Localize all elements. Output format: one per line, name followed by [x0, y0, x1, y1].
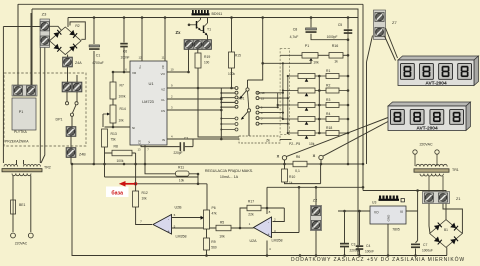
wire raw supply bus: [267, 4, 446, 219]
wire C3 stem: [344, 211, 346, 256]
svg-text:X: X: [313, 153, 316, 158]
wire SW1 rotor2 to Zk: [248, 112, 250, 136]
svg-text:4700uF: 4700uF: [92, 61, 104, 65]
transistor T1 darlington: [189, 20, 211, 36]
relay P1: [12, 98, 36, 130]
resistor R6 0,1: [293, 155, 307, 173]
svg-text:LM723: LM723: [142, 100, 154, 104]
resistor R15 100k: [228, 52, 241, 76]
svg-text:P1: P1: [305, 44, 309, 48]
switch DP1: [56, 102, 79, 122]
capacitor C8 4,7uF: [290, 28, 317, 40]
connector Zx: [176, 30, 212, 50]
wire C2 loop: [141, 139, 193, 164]
svg-text:U3: U3: [372, 201, 376, 205]
wire X stems: [285, 160, 322, 164]
wire P1 to R16: [318, 54, 329, 56]
wire R16 right: [343, 54, 348, 56]
svg-text:VO: VO: [161, 72, 166, 76]
svg-text:LM358: LM358: [176, 235, 187, 239]
svg-text:V-: V-: [147, 141, 151, 144]
display module AVT-2004 #1: [398, 56, 479, 86]
svg-text:22k: 22k: [248, 213, 254, 217]
test point X2: [313, 153, 324, 160]
svg-text:C4: C4: [366, 244, 370, 248]
svg-text:1000pF: 1000pF: [327, 35, 338, 39]
wire U2A pin8: [266, 187, 268, 214]
svg-text:R18: R18: [326, 126, 332, 130]
svg-text:C3: C3: [351, 243, 355, 247]
svg-text:Z2: Z2: [313, 199, 317, 203]
svg-text:10: 10: [171, 68, 175, 72]
wire C6 leads: [123, 18, 125, 73]
svg-text:100: 100: [204, 61, 210, 65]
wire R9 down: [206, 250, 208, 256]
wire switch feed from bus: [248, 18, 263, 88]
connector Z4A: [63, 57, 83, 67]
svg-text:Z3: Z3: [42, 12, 47, 17]
wire Z2 bottom: [315, 231, 317, 256]
connector Z7: [374, 10, 398, 40]
transformer TR2: [2, 165, 51, 176]
svg-text:R19: R19: [204, 55, 210, 59]
svg-text:1000uF: 1000uF: [422, 249, 433, 253]
wire Z3 screw1 to bridge: [50, 26, 62, 30]
svg-text:R17: R17: [248, 200, 254, 204]
capacitor C2 220pF: [173, 137, 188, 156]
resistor R9 560: [204, 238, 217, 250]
svg-text:X: X: [277, 154, 280, 159]
junction dots U1 right: [187, 71, 222, 141]
svg-text:база: база: [111, 189, 123, 196]
potentiometer row R2: [283, 83, 349, 96]
connector Z1: [423, 192, 461, 204]
svg-text:B1: B1: [444, 228, 448, 232]
svg-text:4,7uF: 4,7uF: [290, 35, 299, 39]
svg-text:12: 12: [138, 56, 142, 60]
potentiometer P6 47k: [204, 206, 218, 229]
svg-text:Zk: Zk: [266, 139, 270, 143]
junction dot R15: [112, 16, 233, 128]
resistor R2 label: [75, 24, 79, 28]
wire fuse to terminal: [12, 214, 14, 232]
potentiometer R14 10k: [103, 105, 126, 123]
wire Zx screw2 to R19: [197, 50, 199, 54]
connector Z4B bottom screw: [66, 148, 86, 158]
svg-text:10k: 10k: [309, 142, 315, 146]
wire C1 leads: [93, 18, 95, 165]
svg-text:100k: 100k: [119, 95, 126, 99]
wire base line: [120, 184, 208, 210]
svg-text:560: 560: [211, 246, 217, 250]
wire C8 bottom: [311, 34, 348, 40]
wire U2B pin5: [172, 227, 217, 229]
svg-text:R3: R3: [326, 98, 330, 102]
svg-text:10k: 10k: [219, 235, 225, 239]
svg-text:PRZEKAŹNIKA: PRZEKAŹNIKA: [5, 139, 29, 144]
wire U1 supply pins: [142, 18, 165, 62]
wire U1 VO to Zx: [167, 50, 189, 73]
wire bank interconnect: [318, 76, 320, 133]
resistor R19 100: [195, 53, 210, 68]
op-amp regulator U1 LM723: [125, 56, 174, 152]
svg-text:P6: P6: [212, 206, 216, 210]
wire feedback: [240, 208, 284, 228]
wire C5 top: [347, 18, 349, 29]
capacitor C4 100nF: [356, 244, 374, 254]
relay terminal block: [12, 85, 37, 96]
wire X1 to module2: [286, 118, 388, 157]
svg-text:T1: T1: [207, 28, 211, 32]
wire DP1 stubs: [67, 67, 77, 102]
svg-text:AVT-2004: AVT-2004: [416, 125, 438, 131]
wire main mid bus: [72, 163, 363, 165]
wire feeds to module2: [367, 36, 373, 165]
svg-text:PLYTKA: PLYTKA: [14, 130, 27, 134]
svg-text:10k: 10k: [142, 197, 148, 201]
junction dots switch comb: [220, 92, 222, 131]
potentiometer row R1: [288, 69, 350, 82]
svg-text:100nF: 100nF: [120, 56, 129, 60]
wire relay terminals up: [18, 4, 31, 85]
capacitor C1 4700uF: [89, 45, 104, 65]
svg-text:Z1: Z1: [456, 197, 460, 201]
connector Z2: [311, 199, 322, 231]
wire bridge top to bus: [67, 18, 69, 28]
regulator U3 7805: [370, 201, 406, 232]
svg-text:Z4A: Z4A: [75, 61, 82, 65]
transformer TR1: [413, 143, 459, 192]
svg-text:7805: 7805: [392, 228, 400, 232]
svg-text:R1: R1: [326, 69, 330, 73]
svg-text:R6: R6: [296, 155, 300, 159]
svg-text:LM358: LM358: [272, 239, 283, 243]
svg-text:P2...P5: P2...P5: [289, 142, 300, 146]
wire switch contact feeds: [221, 88, 235, 139]
svg-text:Zx: Zx: [176, 30, 182, 35]
svg-text:0,1: 0,1: [295, 169, 300, 173]
svg-text:220VAC: 220VAC: [419, 143, 433, 147]
svg-text:CS: CS: [161, 109, 165, 113]
svg-text:1k: 1k: [289, 181, 293, 185]
wire U3 VI right: [406, 191, 418, 241]
relay board outline (PLYTKA PRZEKAZNIKA): [4, 73, 86, 146]
rotary switch SW1: [221, 87, 265, 132]
wire R8 leads: [105, 153, 136, 164]
wire R5 to U2A: [231, 227, 254, 229]
svg-text:TR2: TR2: [44, 166, 51, 170]
wire TR2 primary left to fuse: [12, 176, 14, 201]
junction dots mid bus: [71, 163, 323, 166]
svg-text:DODATKOWY ZASILACZ +5V DO ZASI: DODATKOWY ZASILACZ +5V DO ZASILANIA MIER…: [291, 256, 465, 263]
svg-text:C2: C2: [184, 137, 188, 141]
wire P6 to R9: [206, 229, 208, 238]
svg-text:R13: R13: [111, 132, 117, 136]
wire X2 to module2: [323, 122, 388, 157]
wire U2A pin3: [272, 187, 300, 232]
test point X1: [277, 154, 287, 161]
wire R15 bottom: [231, 68, 233, 88]
potentiometer P1 10k: [302, 44, 319, 65]
svg-text:BE1: BE1: [19, 203, 26, 207]
pot bank rails: [347, 29, 350, 165]
wire B1 AC: [429, 204, 462, 234]
wires switch to potentiometers: [259, 49, 290, 135]
wire R12 top: [135, 164, 137, 191]
capacitor C5 1000pF: [327, 23, 353, 39]
wire P1 wiper stem: [263, 61, 311, 64]
caption: [291, 256, 465, 263]
svg-text:R16: R16: [332, 44, 339, 48]
resistor R12 10k: [133, 191, 148, 207]
wire B1 bottom: [358, 247, 447, 255]
svg-text:BD911: BD911: [212, 12, 223, 16]
wire U3 VO left: [338, 210, 370, 212]
svg-text:75k: 75k: [111, 138, 117, 142]
svg-text:U2B: U2B: [175, 206, 183, 210]
resistor R7 100k: [110, 82, 126, 99]
wire C1/C6 bottoms join: [93, 163, 95, 165]
svg-text:DP1: DP1: [56, 118, 63, 122]
wire Z7 to module1: [385, 28, 398, 61]
wire Z4B mid: [70, 137, 72, 148]
svg-text:11: 11: [162, 56, 165, 60]
P6 wiper arrow: [201, 216, 205, 220]
resistor R17 22k: [247, 200, 261, 217]
wire R7 to R14: [112, 99, 114, 105]
svg-text:GND: GND: [387, 214, 391, 222]
wire TR2 primary right down: [30, 176, 32, 233]
resistor R10 1k: [282, 169, 296, 185]
svg-text:1k: 1k: [334, 60, 338, 64]
wire main top bus: [68, 17, 358, 19]
display module AVT-2004 #2: [388, 102, 471, 131]
svg-text:CL: CL: [161, 98, 165, 102]
connector Z3: [40, 12, 50, 48]
wire C8 top: [310, 18, 312, 28]
wire R15 top: [231, 18, 233, 53]
wire U1 IN pin: [167, 138, 239, 140]
label regulacja: [205, 169, 253, 179]
svg-text:VO: VO: [374, 211, 379, 215]
capacitor C7 1000uF: [411, 243, 433, 253]
wire Z2 top: [315, 187, 317, 205]
svg-text:100nF: 100nF: [365, 250, 374, 254]
svg-text:IN: IN: [162, 138, 165, 142]
svg-text:47k: 47k: [212, 212, 218, 216]
svg-text:Z4B: Z4B: [79, 153, 86, 157]
svg-text:R5: R5: [220, 221, 224, 225]
svg-text:10k: 10k: [179, 179, 185, 183]
svg-text:R7: R7: [120, 84, 124, 88]
svg-text:220pF: 220pF: [173, 151, 182, 155]
svg-text:220VAC: 220VAC: [15, 242, 28, 246]
wire U1 CS: [167, 109, 221, 111]
wire U1 CL: [167, 98, 221, 100]
wire P1 left: [280, 54, 302, 56]
resistor R11: [176, 166, 190, 183]
wire R14 wiper stem: [102, 114, 104, 127]
wire T1 collectors: [201, 18, 208, 40]
junction dot R11: [197, 173, 200, 185]
resistor R5 10k: [216, 221, 231, 239]
red base label: [106, 187, 129, 198]
svg-text:100k: 100k: [117, 159, 124, 163]
op-amp U2A LM358: [249, 210, 283, 251]
svg-text:P1: P1: [19, 110, 23, 114]
junction dots top row: [93, 16, 350, 64]
wire TR2 secondary stubs: [17, 160, 24, 165]
wire R2 loop: [70, 22, 85, 39]
pot bank label: [289, 142, 315, 146]
wire Zk right stub: [280, 139, 292, 141]
svg-text:R14: R14: [120, 107, 126, 111]
wire top-left feed: [18, 4, 363, 86]
wire U2A pin4: [266, 241, 268, 256]
potentiometer row R18: [288, 126, 350, 139]
svg-text:CO: CO: [138, 139, 142, 144]
wire R11 loop: [145, 164, 198, 184]
op-amp U2B LM358: [140, 206, 186, 239]
svg-text:VI: VI: [400, 210, 403, 214]
wire DP1 to Z4B: [71, 116, 73, 126]
svg-text:R11: R11: [178, 166, 184, 170]
svg-text:R8: R8: [114, 145, 118, 149]
wire secondary feed y26: [3, 27, 40, 164]
wire U1 VZ: [167, 87, 235, 89]
svg-text:10k: 10k: [119, 119, 125, 123]
junction dots ground bus: [205, 254, 417, 257]
connector above DP1: [62, 82, 82, 92]
svg-text:NI: NI: [132, 126, 135, 130]
wire C4 stem: [359, 211, 361, 256]
svg-text:10k: 10k: [313, 61, 319, 65]
svg-text:C5: C5: [338, 23, 342, 27]
wire bridge bottom to Z4A: [67, 55, 69, 57]
svg-text:10mA... 1A: 10mA... 1A: [220, 175, 239, 179]
wire U3 GND: [387, 224, 389, 256]
junction dot T1 base: [188, 24, 191, 27]
junction dot C3: [343, 210, 361, 213]
svg-text:C7: C7: [423, 243, 427, 247]
svg-text:AVT-2004: AVT-2004: [425, 80, 447, 86]
svg-text:R12: R12: [142, 191, 148, 195]
svg-text:VZ: VZ: [161, 88, 165, 92]
resistor R13 75k: [102, 129, 117, 147]
connector Z4B top screw: [66, 127, 76, 137]
svg-text:R2: R2: [75, 24, 79, 28]
wire R10 top: [284, 164, 286, 169]
mains terminals 220VAC: [11, 233, 34, 245]
heatsink U3: [379, 196, 405, 202]
svg-text:R4: R4: [326, 112, 330, 116]
svg-text:C6: C6: [123, 50, 127, 54]
svg-text:R9: R9: [211, 240, 215, 244]
wire U2B pin6: [172, 217, 201, 219]
red base arrow: [119, 181, 137, 187]
svg-text:Z7: Z7: [392, 20, 397, 25]
wire R12 to op-amp: [136, 207, 152, 225]
svg-text:REGULACJA PRĄDU MAKS.: REGULACJA PRĄDU MAKS.: [205, 169, 253, 173]
svg-text:R2: R2: [326, 83, 330, 87]
rectifier bridge B1: [430, 220, 463, 248]
svg-text:R10: R10: [289, 175, 295, 179]
junction dots raw bus: [298, 163, 419, 192]
wire Z3 to TR2: [40, 48, 45, 164]
wire R13 to bus: [105, 147, 199, 177]
wire C7 stem: [416, 241, 418, 256]
wire U1 VR to R7: [113, 72, 130, 82]
svg-text:C8: C8: [293, 28, 298, 32]
svg-text:U1: U1: [148, 81, 154, 86]
svg-text:C1: C1: [96, 54, 101, 58]
heatsink T1: [192, 10, 223, 16]
junction dot R19: [197, 87, 200, 90]
svg-text:13: 13: [137, 148, 141, 152]
rectifier bridge M1: [50, 27, 82, 55]
resistor R16 1k: [329, 44, 343, 64]
fuse BE1: [11, 200, 26, 214]
wire R10 dogleg: [285, 164, 321, 184]
potentiometer row R3: [278, 98, 350, 111]
board outline border: [32, 9, 358, 256]
svg-text:V+: V+: [138, 65, 142, 69]
junction dot feedback: [239, 207, 269, 230]
svg-text:U2A: U2A: [250, 239, 258, 243]
capacitor C6 100nF: [120, 43, 129, 60]
wire U1 NI wire: [105, 123, 131, 127]
wire Z4B to bus: [70, 158, 72, 165]
svg-text:TR1: TR1: [452, 168, 459, 172]
potentiometer row R4: [283, 112, 349, 125]
capacitor C3 2200uF: [340, 243, 360, 253]
svg-text:R15: R15: [235, 54, 241, 58]
connector Zk (dashed): [239, 136, 280, 143]
wire R19 down: [198, 68, 239, 137]
svg-text:SW1: SW1: [238, 97, 245, 101]
resistor R8 100k: [112, 145, 132, 163]
